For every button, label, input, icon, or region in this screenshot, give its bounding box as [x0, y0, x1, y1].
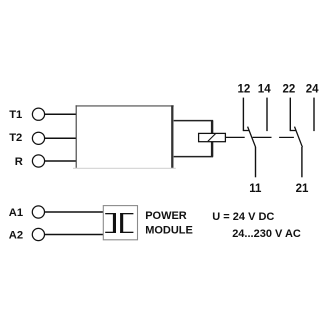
contact 2: moving lever [295, 127, 303, 148]
svg-text:22: 22 [283, 84, 296, 96]
terminal T1 [32, 108, 44, 120]
transformer symbol: left top serif [105, 213, 116, 214]
transformer symbol: right top serif [120, 213, 133, 214]
svg-text:R: R [15, 156, 23, 168]
contact 2: terminal 22 line [289, 98, 291, 132]
relay coil [199, 133, 226, 141]
wire A1 [45, 211, 103, 213]
terminal A1 [32, 206, 44, 218]
relay module box [73, 105, 176, 169]
svg-text:U = 24 V DC: U = 24 V DC [212, 211, 274, 223]
output stage notch [174, 121, 213, 157]
transformer symbol: right core bar [120, 213, 123, 233]
wire T1 [45, 113, 76, 115]
wire A2 [45, 234, 103, 236]
wire T2 [45, 137, 76, 139]
svg-text:T1: T1 [9, 109, 22, 121]
svg-text:11: 11 [249, 183, 262, 195]
contact 1: terminal 12 line [242, 98, 244, 132]
contact 2: terminal 22 tick [290, 130, 296, 132]
contact 1: moving lever [248, 127, 256, 148]
power module box [103, 206, 137, 240]
contact 1: common line to 11 [255, 147, 257, 177]
terminal T2 [32, 132, 44, 144]
svg-text:21: 21 [296, 183, 309, 195]
contact 2: common line to 21 [301, 147, 303, 177]
svg-text:T2: T2 [9, 132, 22, 144]
wire R [45, 160, 76, 162]
contact 1: terminal 12 tick [243, 130, 249, 132]
transformer symbol: right bottom serif [120, 232, 133, 233]
terminal A2 [32, 228, 44, 240]
contact 1: terminal 14 line [266, 98, 268, 132]
svg-text:14: 14 [258, 84, 271, 96]
svg-text:24...230 V AC: 24...230 V AC [232, 228, 301, 240]
svg-text:POWER: POWER [145, 210, 187, 222]
svg-text:12: 12 [238, 84, 251, 96]
svg-text:A2: A2 [9, 230, 23, 242]
terminal R [32, 155, 44, 167]
transformer symbol: left bottom serif [105, 232, 116, 233]
svg-text:MODULE: MODULE [145, 225, 193, 237]
svg-text:A1: A1 [9, 207, 23, 219]
transformer symbol: left core bar [113, 213, 116, 233]
mechanical linkage (dashed) [225, 136, 294, 138]
svg-text:24: 24 [306, 84, 319, 96]
contact 2: terminal 24 line [313, 98, 315, 132]
